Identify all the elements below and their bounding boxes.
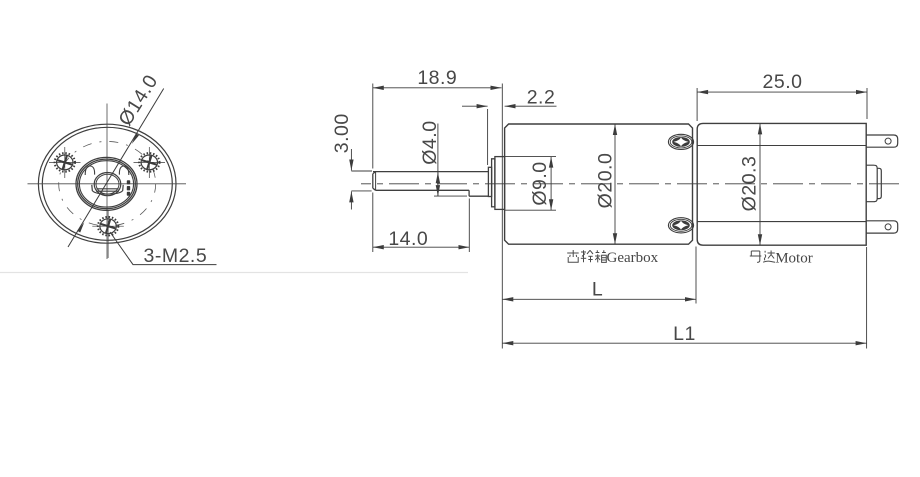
front view outer ellipse — [38, 124, 176, 243]
shaft tip chamfer top — [373, 172, 376, 174]
shaft circle outer — [94, 173, 121, 196]
svg-text:Motor: Motor — [775, 250, 813, 266]
ext Ø9.0 top — [505, 156, 556, 158]
ear right — [119, 166, 128, 175]
dim 14.0 — [373, 246, 470, 248]
svg-text:18.9: 18.9 — [417, 67, 457, 89]
ext L1 right — [866, 247, 868, 349]
svg-text:Ø9.0: Ø9.0 — [529, 161, 551, 205]
ext 14.0 left — [372, 193, 374, 253]
svg-text:L1: L1 — [673, 323, 696, 345]
motor end bump — [866, 165, 877, 202]
轮 — [581, 250, 593, 262]
side screw top — [668, 134, 693, 149]
front view crosshair vertical — [106, 104, 108, 260]
shaft circle inner — [96, 174, 119, 194]
shaft flat chord 1 — [97, 188, 119, 190]
ext L right — [695, 247, 697, 304]
dim 2.2 left tail — [462, 105, 488, 107]
ext 25.0 right — [866, 88, 868, 119]
ext 2.2 left — [487, 109, 489, 165]
dim 25.0 — [697, 91, 867, 93]
svg-text:L: L — [592, 279, 603, 301]
terminal bottom — [866, 221, 898, 233]
terminal top — [866, 135, 898, 147]
svg-text:Ø4.0: Ø4.0 — [419, 120, 441, 164]
dim Ø20.0 — [614, 124, 616, 244]
boss ring outer — [76, 157, 137, 210]
shaft tip vertical — [372, 174, 374, 188]
shaft chamfer edge — [375, 172, 377, 190]
shaft step — [468, 190, 470, 196]
bolt circle dash-dot — [59, 141, 156, 226]
motor seam bottom — [697, 221, 866, 223]
terminal bottom hole — [885, 224, 891, 230]
svg-text:Gearbox: Gearbox — [607, 250, 659, 266]
dim Ø14.0 arrow lower — [77, 222, 84, 232]
collar ring1 — [488, 167, 491, 196]
shaft flat bottom — [376, 189, 470, 191]
shaft flat chord 2 — [96, 190, 119, 192]
screw bottom — [92, 211, 124, 259]
ext 3.00 bottom — [351, 190, 371, 192]
svg-text:2.2: 2.2 — [527, 87, 556, 109]
side screw bottom — [668, 218, 693, 233]
collar ring3 boss — [495, 157, 505, 210]
label 齿轮箱Gearbox — [567, 250, 606, 262]
dim L1 — [502, 342, 866, 344]
ext 18.9/2.2 right — [501, 84, 503, 349]
ext 18.9 left — [372, 84, 374, 169]
ext Ø9.0 bottom — [505, 209, 556, 211]
boss ring inner — [79, 161, 133, 207]
箱 — [595, 250, 606, 262]
boss ring mid — [78, 159, 136, 209]
马 — [750, 251, 762, 262]
faint scan line — [0, 272, 468, 274]
dim Ø14.0 leader line — [68, 89, 164, 248]
svg-text:25.0: 25.0 — [763, 71, 803, 93]
shaft full bottom — [469, 195, 488, 197]
motor seam top — [697, 145, 866, 147]
shaft tip chamfer bottom — [373, 188, 376, 190]
齿 — [567, 250, 579, 262]
svg-text:3.00: 3.00 — [331, 113, 353, 153]
达 — [763, 251, 775, 263]
screw TR — [134, 147, 166, 178]
dim Ø20.3 — [759, 123, 761, 245]
motor body — [697, 123, 866, 245]
dim 3.00 lower tail — [350, 191, 352, 209]
svg-text:3-M2.5: 3-M2.5 — [144, 245, 208, 267]
ext 14.0 right — [468, 199, 470, 253]
front view crosshair horizontal — [28, 183, 187, 185]
screw TL — [49, 147, 81, 178]
collar ring2 — [492, 159, 495, 207]
tiny shaft marking text — [127, 180, 130, 196]
svg-text:14.0: 14.0 — [388, 228, 428, 250]
centerline — [361, 183, 905, 185]
dim 3.00 upper tail — [350, 149, 352, 171]
dim 2.2 right tail — [505, 105, 557, 107]
shaft collar band — [92, 185, 123, 194]
svg-text:Ø20.3: Ø20.3 — [739, 156, 761, 212]
ext 3.00 top — [351, 170, 372, 172]
front view inner ellipse — [42, 127, 172, 240]
dim line 18.9 — [373, 87, 502, 89]
dim Ø14.0 arrow upper — [132, 134, 139, 144]
dim Ø9.0 — [550, 157, 552, 211]
SIDE VIEW — [373, 123, 898, 245]
terminal top hole — [885, 138, 891, 144]
DIMENSIONS — [351, 84, 867, 349]
shaft top line — [373, 171, 488, 173]
dim Ø4.0 arrows — [437, 172, 439, 184]
dim L — [502, 298, 696, 300]
svg-text:Ø20.0: Ø20.0 — [595, 153, 617, 209]
leader 3-M2.5 — [110, 232, 217, 265]
label 马达Motor — [750, 251, 775, 263]
ext 25.0 left — [696, 88, 698, 121]
dim Ø4.0 line — [437, 124, 439, 197]
ext Ø4.0 bottom — [434, 195, 467, 197]
gearbox body — [505, 124, 693, 244]
ear left — [85, 166, 94, 175]
